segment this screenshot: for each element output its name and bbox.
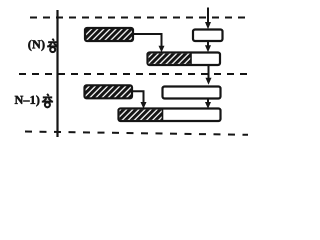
bottom floor dashed line xyxy=(25,132,248,135)
label N-1) floor xyxy=(15,95,40,106)
hatched activity bar A xyxy=(85,28,133,41)
arrow bar2 to box E xyxy=(208,65,210,78)
arrow box1 to bar2 xyxy=(207,41,209,46)
hatched activity bar C xyxy=(85,85,133,98)
hangul cheung top xyxy=(47,39,58,52)
connector A to bar2 xyxy=(133,34,162,46)
hangul cheung bottom xyxy=(42,94,53,107)
top floor dashed line xyxy=(30,17,248,19)
bar F combined xyxy=(119,109,221,122)
incoming arrow top xyxy=(207,8,209,25)
middle floor dashed line xyxy=(19,73,248,75)
vertical grid line xyxy=(56,10,58,137)
white box 1 xyxy=(193,30,223,42)
label (N) floor xyxy=(28,40,44,51)
arrow box E to bar F xyxy=(207,99,209,103)
bar2 combined xyxy=(148,53,221,66)
white box E xyxy=(163,87,221,99)
connector C to bar F xyxy=(132,91,144,102)
